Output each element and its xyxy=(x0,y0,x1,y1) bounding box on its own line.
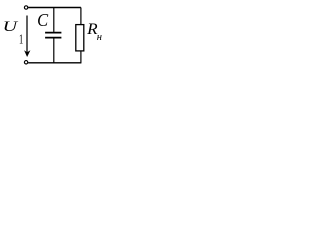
terminal bottom-left xyxy=(24,61,27,64)
wire bottom xyxy=(28,62,81,64)
svg-text:н: н xyxy=(97,32,102,43)
wire top xyxy=(28,7,81,9)
label C xyxy=(37,10,49,30)
svg-text:U: U xyxy=(3,19,19,35)
resistor Rn xyxy=(76,8,84,63)
terminal top-left xyxy=(24,6,27,9)
voltage arrow U1 xyxy=(24,16,30,58)
label Rn xyxy=(86,21,102,43)
svg-text:C: C xyxy=(37,10,49,30)
label U1 xyxy=(3,19,24,47)
svg-text:1: 1 xyxy=(19,33,23,48)
capacitor C xyxy=(45,8,61,63)
